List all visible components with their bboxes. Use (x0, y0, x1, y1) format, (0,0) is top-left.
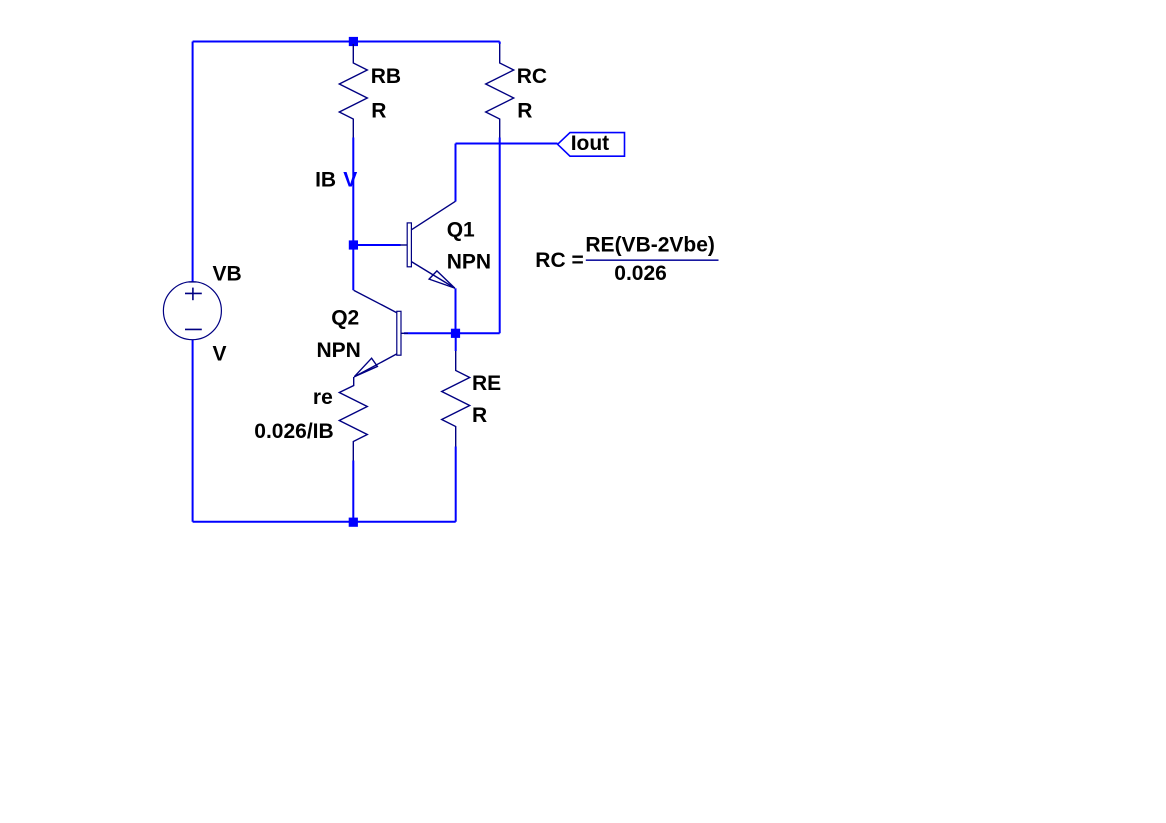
node junction top rail (349, 37, 358, 46)
svg-text:Iout: Iout (571, 132, 609, 155)
resistor RC (486, 44, 514, 138)
node junction base (349, 240, 358, 249)
wire bottom rail (193, 521, 456, 523)
node junction bottom rail (349, 518, 358, 527)
transistor Q1 (400, 201, 491, 288)
svg-text:IB: IB (315, 169, 336, 192)
resistor RB (339, 44, 367, 138)
formula annotation RC equation (535, 234, 718, 286)
svg-text:RE(VB-2Vbe): RE(VB-2Vbe) (585, 234, 715, 257)
voltage source VB (163, 262, 241, 365)
wire Q1 base lead (353, 244, 400, 246)
svg-text:Q2: Q2 (331, 306, 359, 329)
wire Q1 emitter vertical (455, 288, 457, 333)
svg-text:V: V (343, 169, 357, 192)
net flag Iout (558, 132, 625, 156)
wire left rail upper (192, 42, 194, 282)
resistor RE (442, 351, 470, 447)
svg-text:R: R (371, 99, 386, 122)
svg-text:0.026/IB: 0.026/IB (254, 420, 333, 443)
wire node E horizontal (404, 332, 500, 334)
svg-text:NPN: NPN (317, 339, 361, 362)
wire Q1 collector vertical (455, 144, 457, 202)
wire RC top lead (499, 42, 501, 45)
svg-text:RC =: RC = (535, 249, 583, 272)
node junction emitter E (451, 329, 460, 338)
svg-text:R: R (517, 99, 532, 122)
wire RE top (455, 333, 457, 351)
wire RB bottom to base node (352, 138, 354, 246)
svg-text:V: V (213, 343, 227, 366)
wire Iout horizontal (456, 143, 558, 145)
wire re bottom (352, 461, 354, 522)
wire left rail lower (192, 340, 194, 522)
svg-text:R: R (472, 404, 487, 427)
svg-text:NPN: NPN (447, 250, 491, 273)
svg-text:0.026: 0.026 (614, 262, 667, 285)
svg-text:RB: RB (371, 65, 401, 88)
transistor Q2 (317, 290, 409, 377)
resistor re (339, 377, 367, 461)
svg-text:re: re (313, 386, 333, 409)
svg-text:Q1: Q1 (447, 219, 475, 242)
wire top rail (193, 41, 500, 43)
wire Q2 collector to base node (352, 245, 354, 290)
svg-text:RC: RC (517, 65, 547, 88)
wire RC vertical (499, 138, 501, 334)
svg-text:RE: RE (472, 372, 501, 395)
svg-text:VB: VB (213, 262, 242, 285)
wire RE bottom (455, 447, 457, 522)
